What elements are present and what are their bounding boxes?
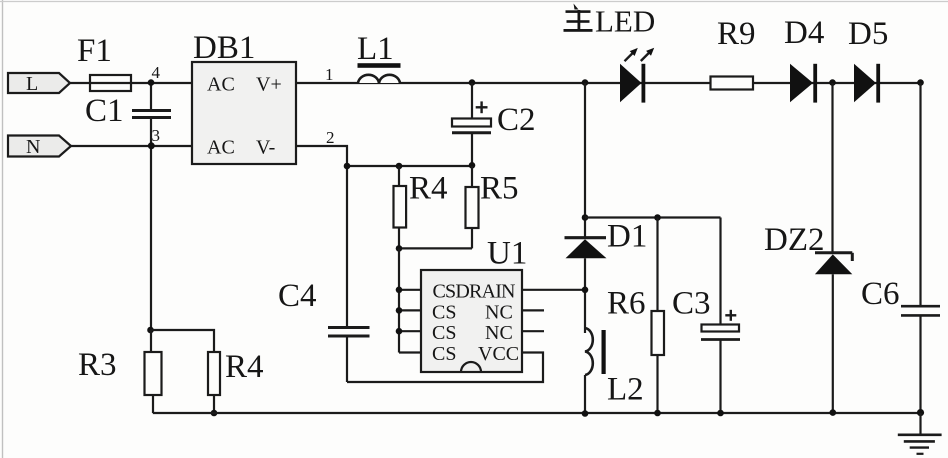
resistor R9 bbox=[711, 16, 756, 90]
svg-text:CS: CS bbox=[432, 343, 456, 365]
wire: junction down to U1 left pins bbox=[398, 248, 400, 352]
svg-text:CSDRAIN: CSDRAIN bbox=[433, 281, 516, 303]
svg-text:4: 4 bbox=[152, 63, 161, 82]
wire: C1 branch down from node 4 bbox=[150, 83, 152, 110]
zener DZ2 bbox=[764, 83, 852, 413]
svg-text:V-: V- bbox=[256, 137, 275, 159]
svg-text:C3: C3 bbox=[672, 286, 711, 322]
svg-text:C6: C6 bbox=[861, 276, 900, 312]
diode D5 bbox=[848, 16, 888, 103]
node 3 bbox=[148, 142, 155, 149]
svg-text:R9: R9 bbox=[717, 16, 756, 52]
node: rail to R6/C3 bbox=[582, 214, 589, 221]
svg-text:D5: D5 bbox=[848, 16, 888, 52]
diode D1 bbox=[565, 219, 648, 334]
svg-text:C4: C4 bbox=[278, 278, 317, 314]
capacitor C1 bbox=[85, 93, 171, 129]
node: L2 bottom bbox=[582, 410, 589, 417]
svg-text:DZ2: DZ2 bbox=[764, 222, 825, 258]
svg-text:VCC: VCC bbox=[478, 343, 519, 365]
inductor L1 bbox=[357, 31, 401, 83]
wire: branch to R4 (lower) bbox=[151, 330, 215, 352]
node: R4 top bbox=[396, 163, 403, 170]
wire: DB1 pin 2 (V-) bbox=[296, 146, 347, 326]
svg-text:D4: D4 bbox=[784, 15, 824, 51]
svg-text:L2: L2 bbox=[607, 372, 644, 408]
connector N bbox=[8, 136, 71, 159]
ground bbox=[898, 413, 942, 454]
svg-text:AC: AC bbox=[207, 74, 235, 96]
svg-text:3: 3 bbox=[152, 126, 161, 145]
svg-text:NC: NC bbox=[485, 301, 513, 323]
wire: D1 branch vertical bbox=[584, 83, 586, 237]
scan border left bbox=[2, 0, 4, 458]
node: R4/R5 bottom junction bbox=[396, 245, 403, 252]
node: U1 pin dots bbox=[396, 287, 403, 294]
scan border top bbox=[0, 1, 948, 3]
svg-text:F1: F1 bbox=[77, 33, 112, 69]
svg-text:R3: R3 bbox=[78, 347, 117, 383]
diode D4 bbox=[784, 15, 824, 103]
wire: DB1 pin 1 (V+) to top rail bbox=[296, 82, 921, 84]
connector L bbox=[8, 73, 70, 95]
wire: L input to DB1 (top rail left, y=83) bbox=[70, 82, 192, 84]
node: R6 top bbox=[654, 214, 661, 221]
svg-text:CS: CS bbox=[432, 301, 456, 323]
resistor R3 bbox=[78, 330, 162, 413]
wire: U1 left pin stubs bbox=[399, 289, 421, 291]
svg-text:V+: V+ bbox=[256, 74, 282, 96]
wire: mid rail y=166 bbox=[347, 165, 472, 167]
node: DZ2 branch top bbox=[829, 79, 836, 86]
svg-text:D1: D1 bbox=[607, 219, 647, 255]
svg-text:C2: C2 bbox=[497, 102, 536, 138]
resistor R4 (lower) bbox=[208, 349, 264, 413]
LED 主LED bbox=[620, 48, 654, 103]
node: C3 bottom bbox=[717, 410, 724, 417]
svg-text:AC: AC bbox=[207, 137, 235, 159]
capacitor C2 (electrolytic) bbox=[452, 83, 536, 165]
wire: VCC return loop bbox=[347, 353, 543, 383]
svg-text:LED: LED bbox=[595, 4, 655, 39]
inductor L2 bbox=[585, 328, 644, 413]
node: mid rail left bbox=[344, 163, 351, 170]
node: R3/R4 branch bbox=[147, 327, 154, 334]
fuse F1 bbox=[90, 75, 131, 91]
wire: U1 NC stubs right bbox=[522, 309, 544, 311]
wire: node 3 down to R3/R4 junction bbox=[150, 146, 152, 330]
svg-text:R4: R4 bbox=[409, 171, 448, 207]
svg-text:R5: R5 bbox=[480, 171, 519, 207]
node: C2 bottom / R5 top bbox=[469, 162, 476, 169]
svg-text:U1: U1 bbox=[487, 236, 527, 272]
capacitor C3 (electrolytic) bbox=[672, 218, 740, 414]
node: CSDRAIN junction bbox=[582, 287, 589, 294]
svg-text:R6: R6 bbox=[607, 286, 646, 322]
node: top right corner bbox=[917, 79, 924, 86]
capacitor C4 bbox=[278, 278, 370, 382]
resistor R5 bbox=[399, 166, 519, 248]
svg-text:2: 2 bbox=[326, 128, 335, 147]
node: ground corner bbox=[917, 409, 924, 416]
svg-text:N: N bbox=[26, 136, 40, 158]
node: DZ2 bottom bbox=[830, 409, 837, 416]
wire: CSDRAIN to D1 branch bbox=[522, 289, 585, 291]
wire: bottom rail bbox=[153, 412, 921, 414]
svg-text:DB1: DB1 bbox=[193, 30, 255, 66]
resistor R6 bbox=[607, 218, 664, 414]
svg-text:R4: R4 bbox=[225, 349, 264, 385]
wire: rail y=217.5 bbox=[585, 216, 721, 218]
node 4 bbox=[148, 79, 155, 86]
svg-text:NC: NC bbox=[485, 322, 513, 344]
resistor R4 (upper) bbox=[394, 166, 448, 248]
svg-text:L: L bbox=[26, 73, 38, 95]
bridge rectifier DB1 bbox=[192, 30, 296, 164]
svg-text:1: 1 bbox=[325, 65, 334, 84]
node: C2 top bbox=[469, 79, 476, 86]
svg-text:L1: L1 bbox=[357, 31, 394, 67]
wire: N input to DB1 (y=146) bbox=[71, 145, 192, 147]
label 主LED bbox=[564, 4, 656, 39]
svg-text:CS: CS bbox=[432, 322, 456, 344]
node: R6 bottom bbox=[654, 410, 661, 417]
svg-text:C1: C1 bbox=[85, 93, 124, 129]
IC U1 bbox=[421, 236, 527, 373]
wire: C1 to node 3 bbox=[150, 119, 152, 147]
node: R4 lower bottom bbox=[211, 410, 218, 417]
node: D1 branch top bbox=[582, 79, 589, 86]
capacitor C6 bbox=[861, 83, 940, 413]
